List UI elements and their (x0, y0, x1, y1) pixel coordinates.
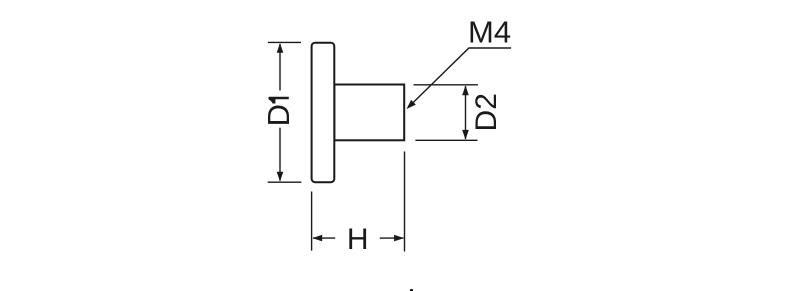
D2 extension line bottom (415, 139, 477, 141)
D1 label digit 1 (drawn, no foot serif) (269, 97, 289, 104)
D1 arrow down (277, 172, 284, 182)
D1 dimension line lower segment (279, 128, 281, 181)
D2 dimension line (465, 86, 467, 139)
svg-text:D: D (261, 104, 296, 126)
D2 arrow down (462, 130, 469, 140)
svg-text:H: H (347, 223, 369, 256)
stray dot at bottom edge (410, 289, 413, 291)
D1 arrow up (277, 43, 284, 53)
H extension line left (311, 192, 313, 251)
D2 extension line top (414, 84, 478, 86)
D1 extension line bottom (268, 181, 302, 183)
H extension line right (404, 152, 406, 252)
H dimension line left segment (313, 237, 335, 239)
D1 dimension line upper segment (279, 44, 281, 91)
flange (D1 head) (312, 43, 335, 183)
svg-text:M4: M4 (468, 15, 511, 50)
D1 extension line top (268, 41, 301, 43)
H arrow right (394, 235, 404, 242)
D2 arrow up (462, 85, 469, 95)
M4 leader line (410, 48, 512, 106)
cylinder body (D2 shank) (334, 85, 404, 141)
svg-text:D2: D2 (470, 93, 503, 131)
H dimension line right segment (380, 237, 404, 239)
M4 leader arrowhead (407, 100, 416, 109)
H arrow left (312, 235, 322, 242)
